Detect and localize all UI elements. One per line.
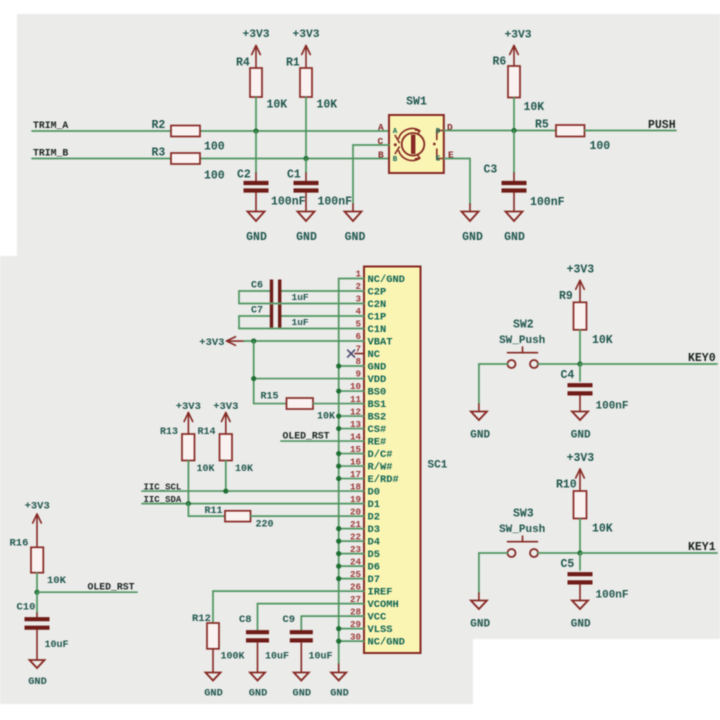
svg-text:GND: GND bbox=[249, 688, 268, 700]
svg-text:C4: C4 bbox=[561, 369, 575, 382]
ground C8 bbox=[249, 673, 268, 700]
junction TRIM_A/R4/C2 bbox=[253, 128, 258, 133]
wire IREF to R12 bbox=[213, 590, 339, 592]
resistor R10 bbox=[556, 479, 613, 536]
svg-text:OLED_RST: OLED_RST bbox=[283, 431, 330, 442]
junction bus pin 15 bbox=[336, 451, 341, 456]
svg-text:23: 23 bbox=[350, 544, 362, 555]
svg-text:+3V3: +3V3 bbox=[25, 501, 50, 513]
svg-text:R6: R6 bbox=[493, 56, 507, 69]
svg-text:C2: C2 bbox=[237, 169, 251, 182]
svg-text:+3V3: +3V3 bbox=[242, 29, 269, 41]
pin 27 (VCOMH) bbox=[339, 594, 399, 611]
svg-text:10: 10 bbox=[350, 381, 361, 392]
svg-text:10uF: 10uF bbox=[45, 640, 69, 651]
wire R9 to KEY0 bbox=[579, 330, 581, 364]
capacitor C9 bbox=[283, 614, 333, 663]
wire SW3 left to ground bbox=[479, 552, 508, 554]
svg-text:10K: 10K bbox=[197, 464, 215, 475]
svg-text:R9: R9 bbox=[559, 290, 573, 303]
svg-text:100nF: 100nF bbox=[530, 196, 565, 209]
svg-text:12: 12 bbox=[350, 406, 361, 417]
resistor R5 bbox=[535, 119, 610, 154]
svg-text:BS1: BS1 bbox=[368, 399, 387, 411]
wire R6 bottom bbox=[513, 98, 515, 131]
svg-text:27: 27 bbox=[350, 594, 361, 605]
power +3V3 (R1) bbox=[292, 29, 319, 68]
no-connect pin 7 bbox=[347, 350, 355, 358]
svg-text:11: 11 bbox=[350, 394, 362, 405]
svg-text:GND: GND bbox=[246, 231, 267, 244]
capacitor C10 bbox=[17, 592, 69, 660]
wire VCOMH to C8 bbox=[258, 603, 339, 605]
wire R14 to IIC_SCL bbox=[225, 461, 227, 492]
svg-text:R1: R1 bbox=[286, 57, 300, 70]
svg-text:GND: GND bbox=[330, 688, 349, 700]
wire TRIM_A right of R2 bbox=[200, 130, 389, 132]
junction bus pin 23 bbox=[336, 551, 341, 556]
svg-text:100: 100 bbox=[590, 140, 611, 153]
junction bus pin 30 bbox=[336, 639, 341, 644]
pin 11 (BS1) bbox=[339, 394, 387, 411]
svg-text:100nF: 100nF bbox=[318, 196, 353, 209]
svg-text:R5: R5 bbox=[535, 119, 549, 132]
svg-text:+3V3: +3V3 bbox=[504, 30, 531, 42]
svg-text:100nF: 100nF bbox=[271, 196, 306, 209]
pin 12 (BS2) bbox=[339, 406, 387, 423]
svg-text:VLSS: VLSS bbox=[368, 624, 393, 636]
svg-text:100: 100 bbox=[204, 141, 225, 154]
svg-text:10K: 10K bbox=[317, 412, 335, 423]
junction bus pin 25 bbox=[336, 576, 341, 581]
svg-text:OLED_RST: OLED_RST bbox=[88, 582, 135, 593]
svg-text:C6: C6 bbox=[251, 281, 263, 292]
ground C4 bbox=[571, 412, 591, 442]
junction bus pin 10 bbox=[336, 388, 341, 393]
wire SW3 to net bbox=[538, 552, 580, 554]
pin 2 (C2P) bbox=[339, 281, 387, 298]
rotary encoder SW1 bbox=[389, 96, 444, 174]
svg-text:R12: R12 bbox=[192, 613, 211, 625]
wire SW2 left to ground bbox=[479, 363, 508, 365]
resistor R2 bbox=[152, 119, 225, 154]
capacitor C3 bbox=[484, 131, 565, 212]
svg-text:D: D bbox=[436, 128, 441, 136]
svg-text:SW1: SW1 bbox=[406, 96, 427, 109]
svg-text:15: 15 bbox=[350, 444, 362, 455]
svg-text:7: 7 bbox=[355, 344, 361, 355]
svg-text:NC/GND: NC/GND bbox=[368, 274, 405, 286]
ground SW1 pin C bbox=[345, 212, 366, 245]
power +3V3 (VBAT) bbox=[199, 337, 244, 349]
resistor R14 bbox=[198, 427, 254, 475]
pin 16 (R/W#) bbox=[339, 456, 393, 473]
svg-text:D7: D7 bbox=[368, 574, 380, 586]
pin 21 (D3) bbox=[339, 519, 380, 536]
svg-text:10K: 10K bbox=[267, 99, 288, 112]
svg-text:19: 19 bbox=[350, 494, 361, 505]
resistor R3 bbox=[152, 147, 225, 183]
svg-text:D/C#: D/C# bbox=[368, 449, 393, 461]
wire R4 bottom to TRIM_A bbox=[255, 97, 257, 131]
wire +3V3 rail vertical bbox=[253, 341, 255, 404]
svg-text:R14: R14 bbox=[198, 427, 216, 438]
pin 24 (D6) bbox=[339, 556, 380, 573]
svg-text:220: 220 bbox=[256, 520, 274, 531]
junction R14/IIC_SCL bbox=[223, 488, 228, 493]
svg-text:BS0: BS0 bbox=[368, 386, 387, 398]
power +3V3 (R13) bbox=[176, 401, 201, 434]
pin 13 (CS#) bbox=[339, 419, 387, 436]
svg-text:C3: C3 bbox=[484, 164, 498, 177]
svg-text:+3V3: +3V3 bbox=[176, 401, 201, 413]
svg-text:R10: R10 bbox=[556, 479, 577, 492]
resistor R11 bbox=[205, 506, 274, 531]
svg-text:D0: D0 bbox=[368, 486, 380, 498]
pin 29 (VLSS) bbox=[339, 619, 393, 636]
svg-text:10K: 10K bbox=[47, 575, 67, 587]
pin 3 (C2N) bbox=[339, 294, 387, 311]
svg-text:30: 30 bbox=[350, 631, 361, 642]
svg-text:VBAT: VBAT bbox=[368, 336, 393, 348]
pin 9 (VDD) bbox=[339, 369, 387, 386]
svg-text:R11: R11 bbox=[205, 506, 223, 517]
svg-text:+3V3: +3V3 bbox=[292, 29, 319, 41]
junction bus pin 22 bbox=[336, 539, 341, 544]
capacitor C4 bbox=[561, 364, 629, 413]
svg-text:2: 2 bbox=[355, 281, 361, 292]
svg-text:R4: R4 bbox=[236, 57, 250, 70]
resistor R13 bbox=[160, 427, 215, 475]
power +3V3 (R6) bbox=[504, 30, 531, 67]
svg-text:C5: C5 bbox=[561, 558, 575, 571]
resistor R12 bbox=[192, 613, 245, 663]
power +3V3 (R9) bbox=[567, 263, 595, 302]
svg-text:D6: D6 bbox=[368, 562, 380, 574]
push switch SW2 bbox=[499, 319, 545, 369]
svg-text:100: 100 bbox=[204, 170, 225, 183]
svg-text:10uF: 10uF bbox=[309, 652, 333, 663]
pin 7 (NC) bbox=[355, 344, 380, 361]
svg-text:28: 28 bbox=[350, 606, 362, 617]
svg-text:SW2: SW2 bbox=[513, 319, 534, 332]
wire OLED_RST to pin 14 bbox=[281, 440, 339, 442]
svg-text:4: 4 bbox=[355, 306, 361, 317]
svg-text:10K: 10K bbox=[317, 99, 338, 112]
pin 17 (E/RD#) bbox=[339, 469, 399, 486]
svg-text:100nF: 100nF bbox=[596, 401, 629, 413]
pin 23 (D5) bbox=[339, 544, 380, 561]
svg-text:18: 18 bbox=[350, 481, 362, 492]
svg-text:TRIM_B: TRIM_B bbox=[33, 148, 68, 159]
wire IIC_SDA bbox=[142, 503, 339, 505]
svg-text:9: 9 bbox=[355, 369, 361, 380]
junction bus pin 24 bbox=[336, 564, 341, 569]
ground C2 bbox=[246, 212, 267, 245]
junction bus pin 12 bbox=[336, 413, 341, 418]
svg-text:SW3: SW3 bbox=[513, 508, 534, 521]
svg-text:24: 24 bbox=[350, 556, 362, 567]
svg-text:10uF: 10uF bbox=[265, 652, 289, 663]
svg-text:E/RD#: E/RD# bbox=[368, 474, 399, 486]
svg-text:C1: C1 bbox=[287, 169, 301, 182]
ground C1 bbox=[296, 212, 317, 245]
pin 30 (NC/GND) bbox=[339, 631, 405, 648]
resistor R4 bbox=[236, 57, 287, 112]
power +3V3 (R14) bbox=[213, 401, 238, 434]
svg-text:29: 29 bbox=[350, 619, 361, 630]
svg-text:GND: GND bbox=[470, 430, 490, 442]
svg-text:R13: R13 bbox=[160, 427, 178, 438]
junction bus pin 13 bbox=[336, 426, 341, 431]
wire VCC to C9 bbox=[301, 615, 338, 617]
junction bus pin 16 bbox=[336, 463, 341, 468]
resistor R16 bbox=[10, 538, 67, 588]
wire SW1 pin C bbox=[353, 144, 389, 146]
junction bus pin 8 bbox=[336, 363, 341, 368]
svg-text:B: B bbox=[378, 150, 384, 161]
capacitor C5 bbox=[561, 553, 629, 602]
ground C9 bbox=[293, 673, 312, 700]
svg-text:6: 6 bbox=[355, 331, 361, 342]
wire R12 to ground bbox=[212, 649, 214, 673]
power +3V3 (R16) bbox=[25, 501, 50, 548]
svg-text:GND: GND bbox=[293, 688, 312, 700]
pin 14 (RE#) bbox=[339, 431, 387, 448]
wire R5 to PUSH bbox=[585, 130, 677, 132]
svg-text:SC1: SC1 bbox=[428, 460, 448, 472]
ground C5 bbox=[571, 601, 591, 631]
capacitor C7 bbox=[239, 305, 339, 329]
wire TRIM_B bbox=[32, 158, 171, 160]
svg-text:C8: C8 bbox=[239, 614, 252, 626]
svg-text:10K: 10K bbox=[592, 334, 613, 347]
ground C3 bbox=[504, 212, 525, 245]
svg-text:GND: GND bbox=[296, 231, 317, 244]
pin 8 (GND) bbox=[339, 356, 387, 373]
svg-text:VCOMH: VCOMH bbox=[368, 599, 399, 611]
svg-text:C2N: C2N bbox=[368, 299, 387, 311]
svg-text:16: 16 bbox=[350, 456, 361, 467]
svg-text:1: 1 bbox=[355, 269, 361, 280]
capacitor C2 bbox=[237, 131, 306, 212]
svg-text:R3: R3 bbox=[152, 147, 166, 160]
junction bus pin 29 bbox=[336, 626, 341, 631]
svg-text:D2: D2 bbox=[368, 511, 380, 523]
pin 4 (C1P) bbox=[339, 306, 387, 323]
svg-text:10K: 10K bbox=[592, 523, 613, 536]
wire R11 to pin 20 bbox=[251, 515, 339, 517]
svg-text:VCC: VCC bbox=[368, 612, 387, 624]
wire SW1 pin E bbox=[444, 158, 470, 160]
pin 22 (D4) bbox=[339, 531, 380, 548]
wire R16 to OLED_RST bbox=[36, 573, 38, 593]
wire IIC_SCL bbox=[142, 490, 339, 492]
svg-text:A: A bbox=[393, 128, 398, 136]
svg-text:GND: GND bbox=[204, 688, 223, 700]
junction VBAT rail bbox=[251, 338, 256, 343]
junction KEY1 bbox=[577, 550, 582, 555]
pin 15 (D/C#) bbox=[339, 444, 393, 461]
junction KEY0 bbox=[577, 361, 582, 366]
ground SW2 bbox=[470, 412, 490, 442]
svg-text:5: 5 bbox=[355, 319, 361, 330]
svg-text:D4: D4 bbox=[368, 537, 380, 549]
pin 6 (VBAT) bbox=[339, 331, 393, 348]
wire C9 to ground bbox=[300, 643, 302, 673]
svg-text:GND: GND bbox=[345, 231, 366, 244]
svg-text:CS#: CS# bbox=[368, 424, 387, 436]
capacitor C8 bbox=[239, 614, 289, 663]
svg-text:GND: GND bbox=[368, 361, 387, 373]
pin 1 (NC/GND) bbox=[339, 269, 405, 286]
wire IIC_SDA down to R11 bbox=[187, 504, 189, 517]
power +3V3 (R10) bbox=[567, 452, 595, 491]
pin 5 (C1N) bbox=[339, 319, 387, 336]
wire VDD bbox=[254, 378, 339, 380]
pin 25 (D7) bbox=[339, 569, 380, 586]
svg-text:R/W#: R/W# bbox=[368, 461, 393, 473]
svg-text:KEY0: KEY0 bbox=[688, 352, 716, 365]
svg-text:+3V3: +3V3 bbox=[213, 401, 238, 413]
ground C10 bbox=[28, 660, 47, 688]
pin 10 (BS0) bbox=[339, 381, 387, 398]
svg-text:10K: 10K bbox=[524, 101, 545, 114]
svg-text:GND: GND bbox=[571, 619, 591, 631]
junction R6/D/C3 bbox=[511, 128, 516, 133]
svg-text:GND: GND bbox=[470, 619, 490, 631]
connector SC1 bbox=[364, 267, 448, 654]
svg-text:20: 20 bbox=[350, 506, 361, 517]
ground SW1 pin E bbox=[462, 212, 483, 245]
svg-text:C1P: C1P bbox=[368, 311, 387, 323]
svg-text:C1N: C1N bbox=[368, 324, 387, 336]
capacitor C6 bbox=[239, 280, 339, 304]
svg-text:+3V3: +3V3 bbox=[199, 337, 224, 349]
svg-text:13: 13 bbox=[350, 419, 362, 430]
junction bus pin 17 bbox=[336, 476, 341, 481]
power +3V3 (R4) bbox=[242, 29, 269, 68]
svg-text:B: B bbox=[393, 156, 398, 164]
svg-text:10K: 10K bbox=[235, 464, 253, 475]
wire GND bus vertical bbox=[338, 279, 340, 665]
svg-text:D1: D1 bbox=[368, 499, 380, 511]
svg-text:14: 14 bbox=[350, 431, 362, 442]
svg-text:100K: 100K bbox=[221, 652, 245, 663]
svg-text:C9: C9 bbox=[283, 614, 296, 626]
resistor R9 bbox=[559, 290, 613, 347]
wire TRIM_B right of R3 bbox=[200, 158, 389, 160]
ground SC1 bus bbox=[330, 673, 349, 700]
wire SW2 to net bbox=[538, 363, 580, 365]
svg-text:NC: NC bbox=[368, 349, 380, 361]
svg-text:R2: R2 bbox=[152, 119, 166, 132]
svg-text:A: A bbox=[378, 122, 384, 133]
resistor R6 bbox=[493, 56, 545, 115]
wire net KEY0 bbox=[580, 363, 717, 365]
wire OLED_RST left bbox=[37, 591, 137, 593]
pin 20 (D2) bbox=[339, 506, 380, 523]
svg-text:25: 25 bbox=[350, 569, 362, 580]
wire net KEY1 bbox=[580, 552, 717, 554]
wire R1 bottom to TRIM_B bbox=[305, 97, 307, 159]
svg-text:TRIM_A: TRIM_A bbox=[33, 120, 68, 131]
wire down from pin E bbox=[469, 159, 471, 205]
svg-text:GND: GND bbox=[504, 231, 525, 244]
junction VDD bbox=[251, 376, 256, 381]
svg-text:GND: GND bbox=[462, 231, 483, 244]
svg-text:GND: GND bbox=[28, 676, 47, 688]
svg-text:26: 26 bbox=[350, 581, 361, 592]
wire R13 to IIC_SDA bbox=[187, 461, 189, 504]
wire SW1 pin D to R5 bbox=[444, 130, 556, 132]
svg-text:C10: C10 bbox=[17, 602, 36, 614]
resistor R15 bbox=[254, 392, 339, 423]
svg-text:1uF: 1uF bbox=[292, 317, 309, 328]
push switch SW3 bbox=[499, 508, 545, 558]
wire down from pin C bbox=[352, 145, 354, 204]
svg-text:+3V3: +3V3 bbox=[567, 263, 595, 276]
svg-text:PUSH: PUSH bbox=[648, 119, 676, 132]
svg-text:1uF: 1uF bbox=[292, 292, 309, 303]
capacitor C1 bbox=[287, 159, 352, 212]
junction TRIM_B/R1/C1 bbox=[303, 156, 308, 161]
svg-text:D5: D5 bbox=[368, 549, 380, 561]
wire VBAT bbox=[244, 340, 339, 342]
junction bus pin 21 bbox=[336, 526, 341, 531]
pin 18 (D0) bbox=[339, 481, 380, 498]
wire TRIM_A bbox=[32, 130, 171, 132]
svg-text:C7: C7 bbox=[251, 306, 263, 317]
ground SW3 bbox=[470, 601, 490, 631]
svg-text:100nF: 100nF bbox=[596, 590, 629, 602]
pin 19 (D1) bbox=[339, 494, 380, 511]
pin 26 (IREF) bbox=[339, 581, 393, 598]
junction OLED_RST bbox=[34, 590, 39, 595]
svg-text:22: 22 bbox=[350, 531, 361, 542]
wire R10 to KEY1 bbox=[579, 519, 581, 554]
svg-text:D3: D3 bbox=[368, 524, 380, 536]
svg-text:NC/GND: NC/GND bbox=[368, 637, 405, 649]
svg-text:KEY1: KEY1 bbox=[688, 541, 716, 554]
svg-text:R16: R16 bbox=[10, 538, 29, 550]
resistor R1 bbox=[286, 57, 337, 112]
svg-text:IREF: IREF bbox=[368, 587, 393, 599]
pin 28 (VCC) bbox=[339, 606, 387, 623]
svg-text:BS2: BS2 bbox=[368, 411, 387, 423]
svg-text:VDD: VDD bbox=[368, 374, 387, 386]
svg-text:+3V3: +3V3 bbox=[567, 452, 595, 465]
svg-text:RE#: RE# bbox=[368, 436, 387, 448]
ground R12 bbox=[204, 673, 223, 700]
svg-text:21: 21 bbox=[350, 519, 362, 530]
svg-text:C2P: C2P bbox=[368, 286, 387, 298]
junction R13/IIC_SDA bbox=[186, 501, 191, 506]
svg-text:8: 8 bbox=[355, 356, 361, 367]
svg-text:SW_Push: SW_Push bbox=[499, 335, 545, 347]
wire C8 to ground bbox=[257, 643, 259, 673]
svg-text:3: 3 bbox=[355, 294, 361, 305]
svg-text:17: 17 bbox=[350, 469, 361, 480]
svg-text:E: E bbox=[436, 156, 441, 164]
svg-text:GND: GND bbox=[571, 430, 591, 442]
svg-text:R15: R15 bbox=[261, 392, 279, 403]
svg-text:SW_Push: SW_Push bbox=[499, 524, 545, 536]
